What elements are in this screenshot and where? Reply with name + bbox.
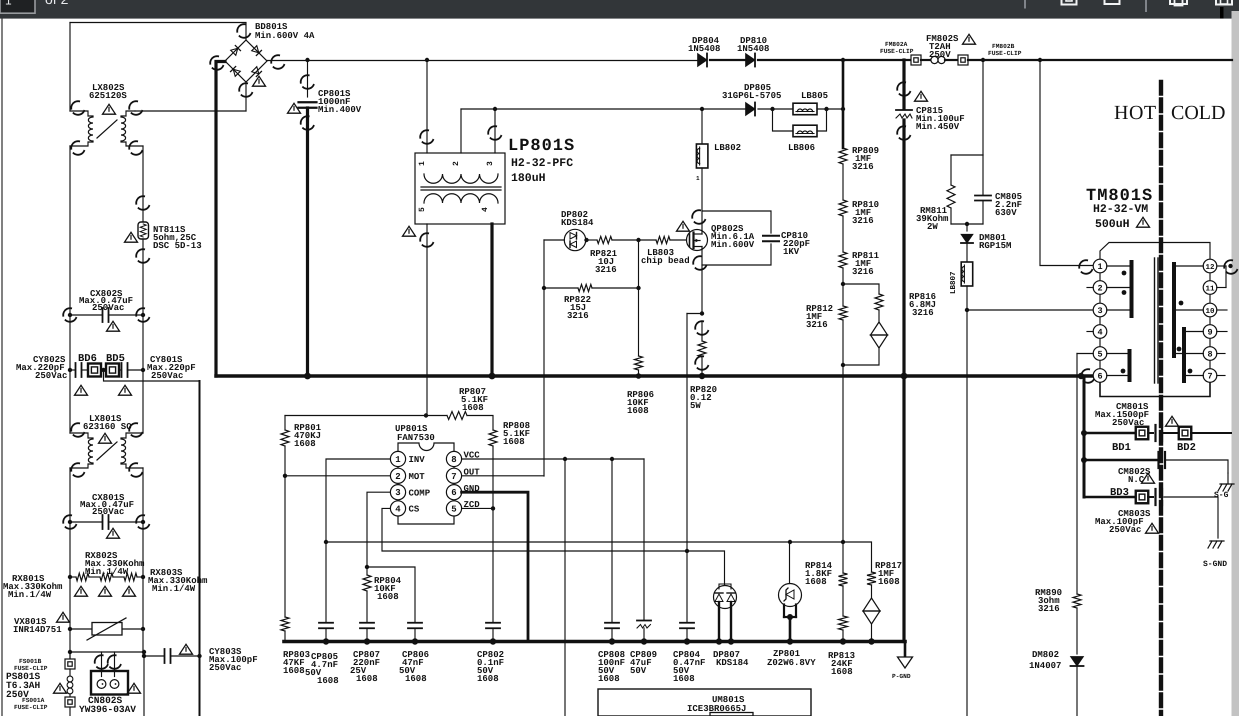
signal ground rail thick <box>284 640 905 644</box>
PGND bus thick <box>216 374 1092 377</box>
svg-text:FUSE-CLIP: FUSE-CLIP <box>14 704 48 711</box>
resistor RP803 <box>281 617 289 631</box>
LP801S pin 3 wire <box>494 109 496 153</box>
svg-text:1608: 1608 <box>598 674 620 684</box>
svg-text:H2-32-PFC: H2-32-PFC <box>511 157 573 170</box>
page view icon <box>1105 0 1120 4</box>
svg-text:LB806: LB806 <box>788 143 815 153</box>
choke LX801S <box>70 433 93 438</box>
wire beads to +B node <box>817 108 843 110</box>
gate wire <box>670 239 687 241</box>
wire x144 to bottom <box>143 656 145 716</box>
terminal mark x143 <box>134 247 152 265</box>
varistor VX801S <box>70 628 92 630</box>
svg-text:500uH: 500uH <box>1095 218 1130 231</box>
OVP branch resistor RP816 <box>843 284 879 294</box>
svg-text:3216: 3216 <box>595 265 617 275</box>
warning mark near bridge <box>253 76 266 86</box>
wire pin3 feed <box>967 309 1094 311</box>
svg-text:9: 9 <box>1207 327 1212 337</box>
chassis ground S-G 1 <box>1218 484 1234 491</box>
diode DP804 <box>698 54 707 67</box>
svg-text:7: 7 <box>1207 371 1212 381</box>
row BD3 CM803S <box>1084 496 1136 499</box>
wire <box>842 216 844 252</box>
svg-text:INR14D751: INR14D751 <box>13 625 62 635</box>
svg-text:BD3: BD3 <box>1110 487 1129 499</box>
wire CM803S to S-GND 2 <box>1164 497 1218 538</box>
terminal mark bridge right <box>269 53 287 71</box>
svg-text:31GP6L-5705: 31GP6L-5705 <box>722 91 781 101</box>
capacitor CX801S <box>70 521 103 523</box>
transformer LP801S box <box>415 153 505 224</box>
svg-text:4: 4 <box>395 504 401 514</box>
wire sense column x687 <box>686 314 688 552</box>
wire thick from bus to Y-cap rows <box>1083 376 1086 497</box>
bead BD5 <box>106 364 119 377</box>
row CM801S BD1 BD2 <box>1084 432 1136 435</box>
bead LB806 parallel <box>773 109 794 131</box>
wire CN802S pin1 <box>101 652 103 677</box>
svg-text:FM802B: FM802B <box>992 43 1015 50</box>
svg-text:1: 1 <box>696 175 700 182</box>
wire y60 between diodes <box>710 59 745 61</box>
warning mark CM802S NC <box>1142 473 1155 483</box>
svg-text:250V: 250V <box>929 50 951 60</box>
svg-text:10: 10 <box>1205 307 1215 316</box>
wire Y-cap junction to earth line <box>104 370 200 381</box>
TM801S secondary stubs <box>1217 265 1226 267</box>
wire CS to DP807 anode <box>687 551 725 585</box>
warning mark CY803S <box>180 644 193 654</box>
capacitor CM805 <box>982 155 984 195</box>
bead BD2 <box>1164 432 1179 434</box>
power ground symbol P-GND <box>904 642 907 658</box>
svg-text:CS: CS <box>409 505 420 515</box>
svg-text:3216: 3216 <box>1038 604 1060 614</box>
capacitor CY803S <box>144 655 164 657</box>
wire bridge negative thick to PGND bus <box>216 62 225 377</box>
warning mark CX802S <box>107 321 120 331</box>
svg-text:HOT: HOT <box>1114 102 1157 124</box>
svg-text:RGP15M: RGP15M <box>979 241 1011 251</box>
svg-text:LP801S: LP801S <box>508 137 575 156</box>
wire COMP pin3 <box>367 492 390 567</box>
capacitor CM801S plates <box>1154 425 1156 441</box>
resistor RP814 <box>842 542 844 573</box>
TM801S secondary winding lower bar <box>1182 329 1186 381</box>
warning mark CN802S <box>128 683 141 693</box>
svg-text:11: 11 <box>1205 285 1215 293</box>
diode DM801 <box>966 224 968 231</box>
terminal mark bridge bottom <box>237 81 255 99</box>
warning mark LX802S <box>103 104 116 114</box>
resistor RM811 <box>950 155 952 185</box>
warning mark LP801S <box>403 226 416 236</box>
capacitor CP807 <box>366 591 368 622</box>
bead BD6 <box>88 364 101 377</box>
warning mark LX801S <box>99 433 112 443</box>
bead LB805 <box>793 103 817 115</box>
svg-text:250Vac: 250Vac <box>1109 525 1141 535</box>
svg-text:Min.400V: Min.400V <box>318 105 362 115</box>
svg-text:1608: 1608 <box>878 577 900 587</box>
wire INV pin1 <box>326 459 390 622</box>
svg-text:250Vac: 250Vac <box>1112 418 1144 428</box>
chassis ground S-GND 2 <box>1208 541 1224 548</box>
warning mark CM801S <box>1166 416 1179 426</box>
TM801S primary winding lower bar <box>1128 351 1132 380</box>
warning mark PS801S <box>54 683 67 693</box>
TM801S secondary winding upper bar <box>1172 264 1176 356</box>
capacitor CP806 parallel to COMP <box>367 567 415 622</box>
wire x967 down to bottom <box>966 310 968 716</box>
svg-text:1608: 1608 <box>356 674 378 684</box>
wire <box>842 268 844 306</box>
TM801S secondary pin column <box>1209 260 1211 382</box>
svg-text:250Vac: 250Vac <box>151 371 183 381</box>
wire LB807 to pin3 node <box>966 286 968 310</box>
resistor RP812 <box>839 306 847 320</box>
TM801S primary pin column <box>1099 260 1101 382</box>
zener ZP801 <box>779 584 802 607</box>
wire gate mid <box>639 239 657 241</box>
warning mark CP815 <box>915 91 928 101</box>
wire RP807 corner <box>467 416 493 431</box>
svg-text:P-GND: P-GND <box>892 673 911 680</box>
svg-text:chip bead: chip bead <box>641 256 690 266</box>
wire DM802 to bottom <box>1076 667 1078 716</box>
svg-text:1608: 1608 <box>294 439 316 449</box>
wire CM802S to S-GND <box>1165 460 1228 473</box>
svg-text:KDS184: KDS184 <box>561 218 594 228</box>
svg-text:5: 5 <box>451 504 456 514</box>
svg-text:6: 6 <box>1097 372 1102 382</box>
wire CP815 column thick upper <box>902 60 905 108</box>
fuse clip FM802A <box>911 55 921 65</box>
TM801S pin5 wire <box>1077 353 1093 355</box>
wire DP802 to gate return column <box>544 239 564 241</box>
svg-text:1608: 1608 <box>503 437 525 447</box>
svg-text:2W: 2W <box>927 222 938 232</box>
svg-text:KDS184: KDS184 <box>716 658 749 668</box>
svg-text:6: 6 <box>451 488 456 498</box>
terminal marks LX801S <box>69 421 87 439</box>
wire RM890 to DM802 <box>1076 608 1078 654</box>
svg-text:3216: 3216 <box>852 162 874 172</box>
resistor RP810 <box>839 200 847 216</box>
svg-text:BD1: BD1 <box>1112 442 1131 454</box>
wire CS sense branch <box>687 313 702 315</box>
schematic page left border <box>1 19 3 716</box>
svg-text:180uH: 180uH <box>511 172 546 185</box>
svg-text:LB802: LB802 <box>714 143 741 153</box>
wire y60 segment C to page edge <box>968 59 1232 61</box>
toolbar separator 2 <box>1145 0 1147 12</box>
capacitor CY801S plates <box>121 363 123 377</box>
warning mark TM801S <box>1137 217 1150 227</box>
svg-text:DSC 5D-13: DSC 5D-13 <box>153 241 202 251</box>
warning marks RX row <box>75 586 88 596</box>
svg-text:250Vac: 250Vac <box>35 371 67 381</box>
svg-text:623160 SO: 623160 SO <box>83 422 132 432</box>
warning mark CM803S <box>1146 523 1159 533</box>
wire after DP805 <box>758 108 793 110</box>
wire <box>842 164 844 200</box>
dual zener below RP817 <box>871 585 873 598</box>
IC UP801S body <box>398 443 454 524</box>
IC pins 1-4 <box>390 451 405 466</box>
svg-text:3: 3 <box>486 161 495 166</box>
svg-text:3: 3 <box>1097 306 1102 316</box>
wire bottom AC feed y652 <box>70 651 144 653</box>
svg-text:1608: 1608 <box>673 674 695 684</box>
wire AC top loop <box>70 23 246 41</box>
capacitor CP809 electrolytic <box>643 459 645 620</box>
snubber capacitor CP810 <box>702 211 771 233</box>
svg-text:5W: 5W <box>690 401 701 411</box>
wire earth line x199 down <box>199 381 201 656</box>
capacitor CP801S <box>307 60 309 97</box>
svg-text:3216: 3216 <box>852 267 874 277</box>
terminal mark CP815 top <box>895 80 913 98</box>
current sense resistor RP820 <box>693 319 711 337</box>
terminal mark bridge top <box>235 22 253 40</box>
wire OUT pin7 <box>462 475 544 477</box>
svg-text:Min.1/4W: Min.1/4W <box>8 590 52 600</box>
HOT COLD isolation dashed line <box>1159 82 1163 716</box>
svg-text:1608: 1608 <box>462 403 484 413</box>
svg-text:BD2: BD2 <box>1177 442 1196 454</box>
svg-text:Min.450V: Min.450V <box>916 122 960 132</box>
terminal mark bridge left <box>208 54 226 72</box>
wire aux node top bar <box>951 154 983 156</box>
svg-text:2: 2 <box>1097 284 1102 294</box>
bead LB803 <box>656 236 670 243</box>
TM801S pin2 stub <box>1087 287 1093 289</box>
bead BD3 <box>1136 491 1149 504</box>
fuse clip FS001B <box>69 652 71 659</box>
svg-text:Min.600V 4A: Min.600V 4A <box>255 31 315 41</box>
TM801S bottom wire <box>1100 382 1210 397</box>
resistor RP822 <box>544 287 578 289</box>
IC pins 5-8 <box>446 451 461 466</box>
terminal mark TM pin1 area <box>1077 258 1095 276</box>
wires DP807 cathodes to rail <box>718 602 720 642</box>
wire CN802S pin2 <box>114 652 116 677</box>
row CM802S <box>1084 459 1158 462</box>
svg-text:1608: 1608 <box>405 674 427 684</box>
svg-text:8: 8 <box>451 455 456 465</box>
svg-text:5: 5 <box>418 207 427 212</box>
resistor RP808 <box>489 430 497 446</box>
svg-text:BD6: BD6 <box>78 353 97 365</box>
svg-text:of 2: of 2 <box>45 0 69 7</box>
standby IC UM801S box <box>598 689 811 716</box>
wire aux column x983 <box>982 60 984 155</box>
resistor RP804 <box>366 567 368 575</box>
wire right rail x143 below NT811S <box>142 239 144 433</box>
wire right rail x143 lower <box>142 468 144 656</box>
wires ZP801 legs <box>783 605 785 618</box>
svg-text:12: 12 <box>1205 263 1215 272</box>
svg-text:BD5: BD5 <box>106 353 125 365</box>
choke LX802S <box>70 111 93 116</box>
capacitor CX802S <box>70 314 103 316</box>
warning mark CX801S <box>107 528 120 538</box>
svg-text:2: 2 <box>452 161 461 166</box>
warning mark VX801S <box>57 612 70 622</box>
terminal mark NT811S <box>134 194 152 212</box>
svg-text:FS001B: FS001B <box>19 658 42 665</box>
wire bridge AC2 from choke <box>135 110 246 112</box>
svg-text:S-GND: S-GND <box>1203 560 1227 569</box>
connector CN802S <box>91 671 128 695</box>
terminal mark QP802S source <box>691 254 709 272</box>
svg-text:Min.1/4W: Min.1/4W <box>85 567 129 577</box>
svg-text:3216: 3216 <box>912 308 934 318</box>
svg-text:1608: 1608 <box>283 666 305 676</box>
dual diode DP802 <box>586 239 598 241</box>
svg-text:DM802: DM802 <box>1032 650 1059 660</box>
wire y60 segment B <box>758 59 911 61</box>
svg-text:FUSE-CLIP: FUSE-CLIP <box>880 48 914 55</box>
TM801S pin circles secondary <box>1203 259 1217 273</box>
capacitor CP802 <box>492 508 494 621</box>
scrollbar track <box>1232 11 1239 716</box>
wire RP808 to ZCD pin <box>492 446 494 508</box>
wire standby feed x565 <box>564 459 566 716</box>
bead LB802 <box>701 109 703 144</box>
warning mark FM802S <box>963 34 976 44</box>
wire left rail x70 mid <box>69 146 71 433</box>
thermistor NT811S <box>138 222 149 239</box>
svg-text:1608: 1608 <box>627 406 649 416</box>
save icon <box>1216 0 1232 5</box>
TM801S core lines <box>1154 258 1156 383</box>
wire right rail x143 <box>142 146 144 222</box>
toolbar background <box>0 0 1239 19</box>
svg-text:1: 1 <box>1097 262 1102 272</box>
bead BD1 <box>1136 427 1149 440</box>
svg-text:250Vac: 250Vac <box>209 663 241 673</box>
fit-to-page icon <box>1062 0 1077 5</box>
fuse FM802S <box>921 59 930 61</box>
resistor RP813 <box>842 586 844 616</box>
wire left rail x70 lower <box>69 468 71 664</box>
warning mark NT811S <box>125 232 138 242</box>
resistor RP807 <box>447 412 467 420</box>
svg-text:1: 1 <box>418 161 427 166</box>
LP801S pin 4 wire thick to bus <box>490 224 493 376</box>
svg-text:2: 2 <box>395 472 400 482</box>
svg-text:LB805: LB805 <box>801 91 828 101</box>
dual zener in OVP branch <box>878 310 880 322</box>
svg-text:YW396-03AV: YW396-03AV <box>79 704 136 715</box>
svg-text:FUSE-CLIP: FUSE-CLIP <box>988 50 1022 57</box>
capacitor CP804 <box>686 551 688 622</box>
LP801S pin 2 wire <box>460 109 462 153</box>
wire divider to INV tap <box>842 320 844 542</box>
TM801S pin4 stub <box>1087 331 1093 333</box>
transformer TM801S top shield wire <box>1100 243 1210 261</box>
dual diode DP807 <box>714 586 737 609</box>
wire CP801S thick down to bus <box>306 108 309 376</box>
wire LB802 to drain <box>701 168 703 230</box>
wire TM pin5 sense column <box>1076 354 1078 595</box>
wire source column x702 <box>701 249 703 314</box>
terminal mark CP815 bottom <box>895 124 913 142</box>
terminal mark bus at pin6 <box>1079 367 1097 385</box>
svg-text:4: 4 <box>481 207 490 212</box>
warning marks Y-caps <box>75 385 88 395</box>
svg-text:1N5408: 1N5408 <box>688 44 720 54</box>
capacitor CP815 electrolytic <box>896 109 912 111</box>
capacitor CP805 <box>319 622 333 624</box>
resistor RM890 <box>1073 594 1081 608</box>
svg-text:8: 8 <box>1207 349 1212 359</box>
wire +B column upper thick <box>842 60 845 148</box>
svg-text:FAN7530: FAN7530 <box>397 433 435 443</box>
wire left rail x70 upper <box>69 23 71 112</box>
svg-text:Min.600V: Min.600V <box>711 240 755 250</box>
fuse PS801S <box>69 669 71 676</box>
svg-text:1N5408: 1N5408 <box>737 44 769 54</box>
bead LB807 <box>966 243 968 262</box>
capacitor CP808 <box>611 459 613 622</box>
terminal marks LX802S <box>69 99 87 117</box>
warning mark CP801S <box>288 103 301 113</box>
svg-text:Z02W6.8VY: Z02W6.8VY <box>767 658 816 668</box>
wire aux node bottom bar <box>951 223 983 225</box>
resistor RP817 <box>843 542 872 572</box>
wire GND pin6 thick <box>462 492 528 641</box>
capacitor CM802S plates <box>1157 452 1159 468</box>
wire ZCD stub <box>462 507 493 509</box>
svg-text:3216: 3216 <box>852 216 874 226</box>
fuse clip FS001A <box>65 697 75 707</box>
wire boost node y109 <box>461 108 745 110</box>
resistors RX801S RX802S RX803S row <box>70 576 76 578</box>
svg-text:1N4007: 1N4007 <box>1029 661 1061 671</box>
svg-text:INV: INV <box>409 455 426 465</box>
wire RP801 column to RP803 <box>284 476 286 617</box>
MOSFET QP802S <box>687 230 708 251</box>
svg-text:3216: 3216 <box>567 311 589 321</box>
svg-text:1608: 1608 <box>477 674 499 684</box>
diode DM802 <box>1071 657 1084 666</box>
bridge rectifier BD801S <box>225 40 267 82</box>
terminal mark QP802S drain <box>690 208 708 226</box>
resistor RP811 <box>839 252 847 268</box>
wire ZCD top y415 <box>285 415 447 417</box>
page number input box <box>0 0 35 13</box>
wire CS pin4 <box>382 508 687 551</box>
wire MOT pin2 <box>285 475 390 477</box>
svg-text:3216: 3216 <box>806 320 828 330</box>
wire earth x199 to bottom <box>199 656 201 716</box>
svg-text:LB807: LB807 <box>949 271 958 294</box>
svg-text:630V: 630V <box>995 208 1017 218</box>
svg-text:FS001A: FS001A <box>22 697 45 704</box>
svg-text:625120S: 625120S <box>89 91 127 101</box>
LP801S pin 5 wire <box>426 224 428 415</box>
TM801S pin circles primary <box>1093 259 1107 273</box>
resistor RP806 <box>638 240 640 356</box>
svg-text:250Vac: 250Vac <box>92 303 124 313</box>
capacitor CM803S plates <box>1154 489 1156 505</box>
svg-text:H2-32-VM: H2-32-VM <box>1093 203 1148 216</box>
